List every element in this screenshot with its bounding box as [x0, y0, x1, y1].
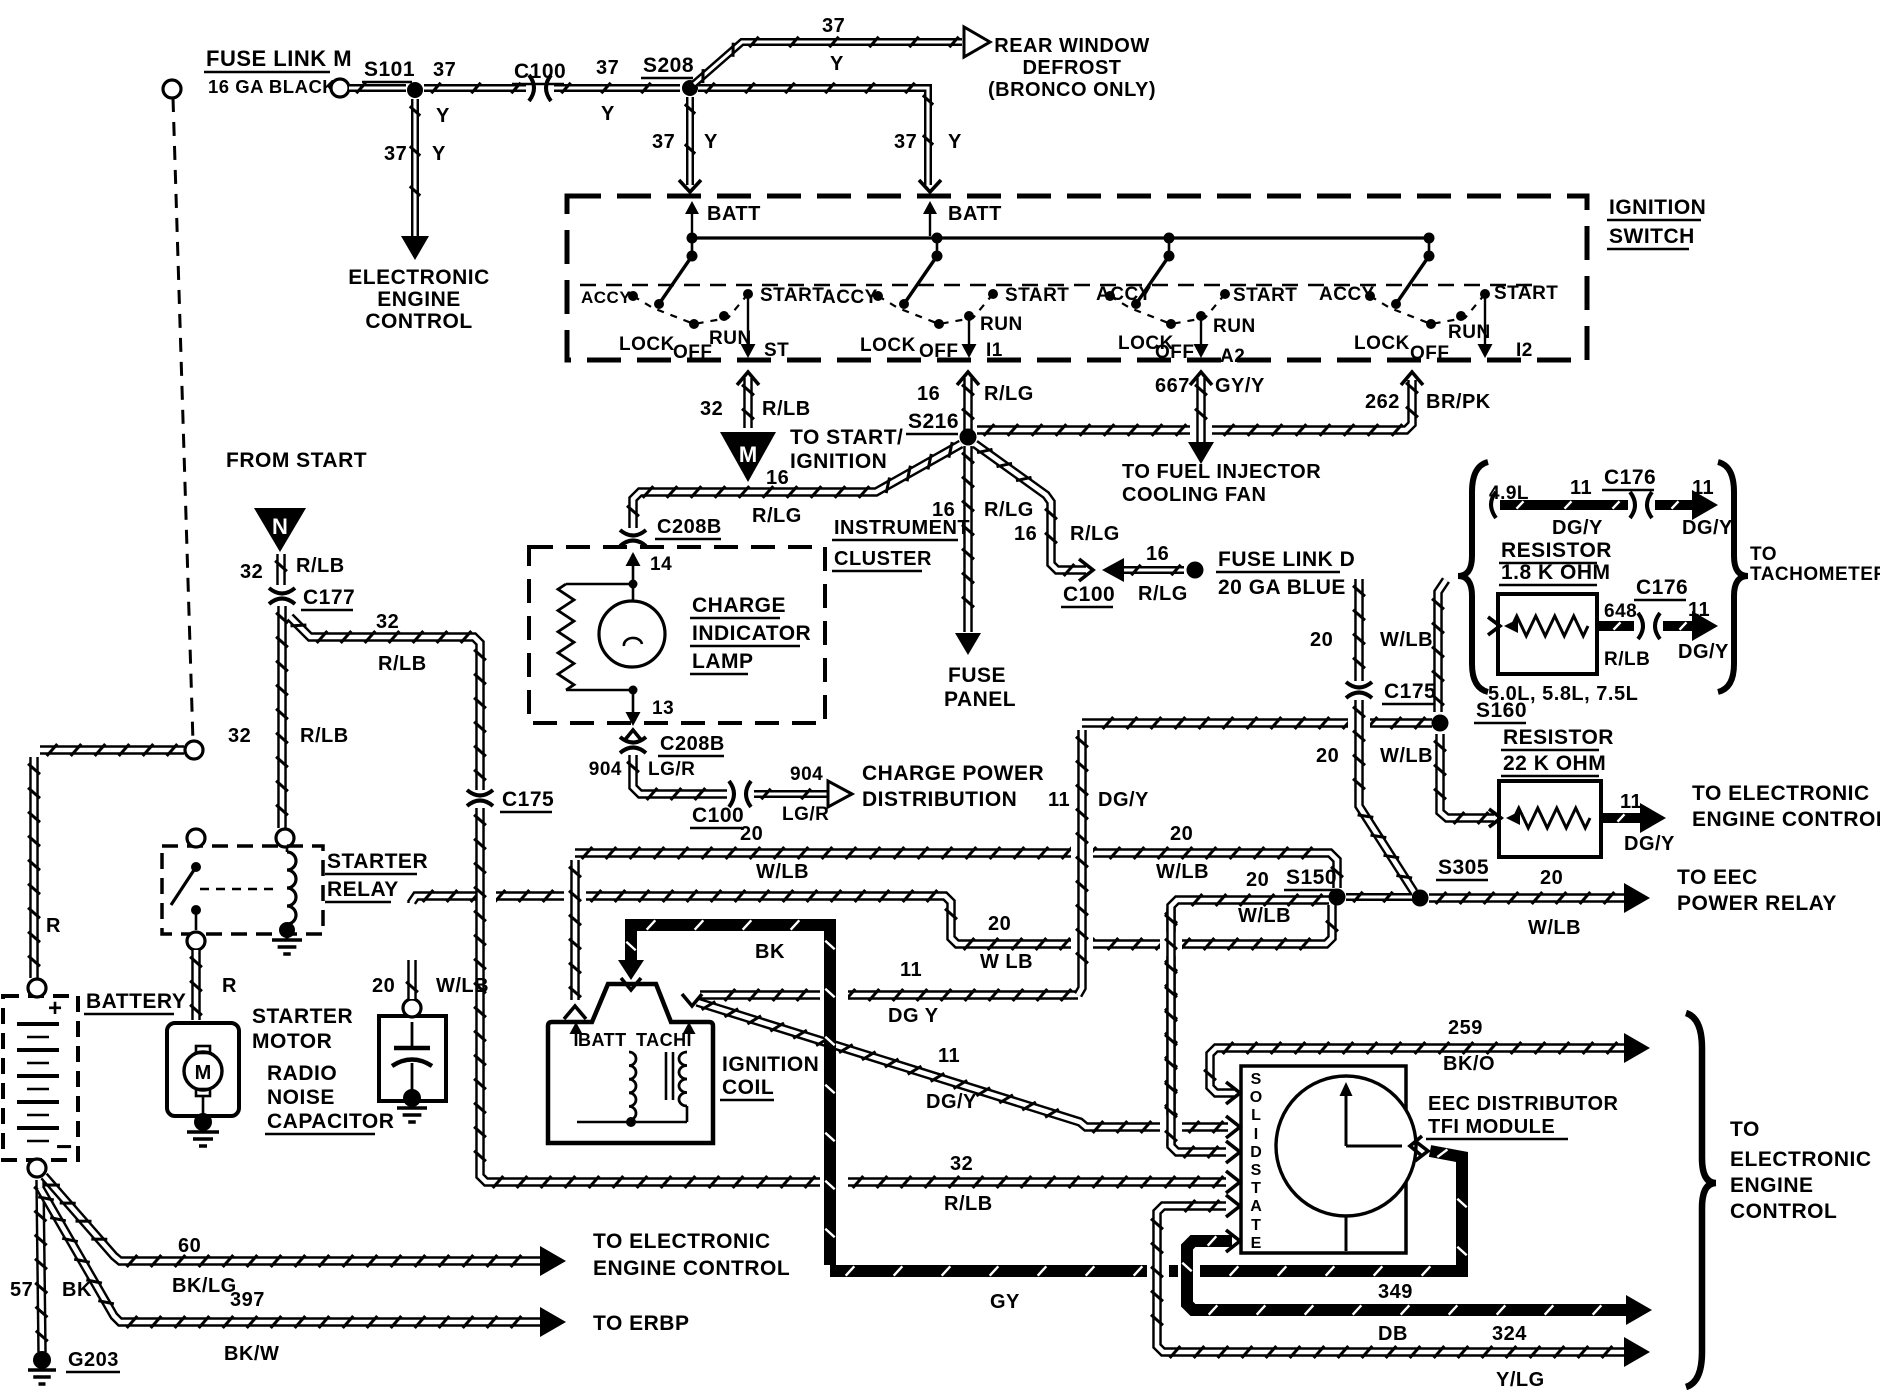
- wiper arm: [659, 256, 692, 304]
- svg-text:262: 262: [1365, 391, 1400, 413]
- svg-text:CONTROL: CONTROL: [365, 310, 472, 333]
- svg-text:R/LB: R/LB: [378, 653, 427, 675]
- wire BK: [631, 925, 830, 1265]
- contact START: [988, 289, 998, 299]
- splice S216: [960, 429, 977, 446]
- svg-text:BR/PK: BR/PK: [1426, 391, 1491, 413]
- svg-text:S150: S150: [1286, 866, 1337, 889]
- wiper detent arc: [1370, 294, 1485, 324]
- svg-text:37: 37: [822, 15, 845, 37]
- svg-text:37: 37: [652, 131, 675, 153]
- wire 32 R/LB to start ignition: [743, 378, 753, 428]
- wire 57 BK: [40, 1180, 42, 1352]
- svg-text:TACHOMETER: TACHOMETER: [1750, 564, 1880, 585]
- svg-text:20: 20: [372, 975, 395, 997]
- node coil common: [626, 1117, 636, 1127]
- contact OFF: [689, 319, 699, 329]
- splice S150: [1329, 889, 1346, 906]
- svg-text:C177: C177: [303, 586, 355, 609]
- contact LOCK: [1131, 299, 1141, 309]
- wire R battery to relay: [40, 745, 184, 755]
- wiper bus junction: [1424, 233, 1435, 244]
- arrowhead I1: [962, 344, 977, 358]
- wire 11 DG/Y S160 to 22k: [1440, 734, 1494, 818]
- svg-text:COOLING FAN: COOLING FAN: [1122, 484, 1266, 506]
- svg-text:DEFROST: DEFROST: [1022, 57, 1121, 79]
- svg-text:16 GA BLACK: 16 GA BLACK: [208, 76, 336, 97]
- svg-text:W/LB: W/LB: [1380, 629, 1433, 651]
- svg-text:M: M: [739, 442, 757, 467]
- svg-text:R/LG: R/LG: [1138, 583, 1188, 605]
- wire 397 BK/W: [40, 1188, 542, 1322]
- ignition coil box: [548, 984, 713, 1143]
- wiper detent arc: [878, 294, 993, 324]
- wire 16 R/LG S216 to instrument cluster: [633, 444, 961, 528]
- svg-text:GY/Y: GY/Y: [1215, 375, 1265, 397]
- svg-text:TO: TO: [1730, 1118, 1760, 1141]
- svg-text:MOTOR: MOTOR: [252, 1030, 332, 1053]
- svg-text:INDICATOR: INDICATOR: [692, 622, 811, 645]
- wire 37 Y C100 to S208: [554, 84, 680, 92]
- wire 904 LG/R: [633, 755, 727, 794]
- terminal A2 lead: [1200, 316, 1202, 346]
- terminal battery negative: [28, 1159, 46, 1177]
- pin 13 lead: [632, 690, 635, 712]
- wiper bus junction: [932, 233, 943, 244]
- battery cells: [17, 1022, 59, 1026]
- wire 32 R/LB C177 branch: [290, 617, 480, 790]
- ignition switch box: [567, 196, 1587, 360]
- terminal ring fuse link M left: [163, 80, 181, 98]
- svg-text:W/LB: W/LB: [1528, 917, 1581, 939]
- distributor rotor arrowhead: [1340, 1082, 1353, 1096]
- wiper bus junction: [687, 233, 698, 244]
- wire to tachometer resistors: [1438, 580, 1446, 712]
- contact START: [1480, 289, 1490, 299]
- svg-text:ELECTRONIC: ELECTRONIC: [348, 266, 490, 289]
- solid state TFI box: [1241, 1066, 1406, 1253]
- svg-text:32: 32: [700, 398, 723, 420]
- coil BATT terminal: [575, 1026, 578, 1046]
- terminal ST lead: [747, 294, 749, 346]
- fork TFI terminal 6: [1226, 1230, 1240, 1252]
- svg-text:11: 11: [1570, 477, 1592, 499]
- wiper arm: [1136, 256, 1169, 304]
- svg-text:STARTER: STARTER: [252, 1005, 353, 1028]
- relay contact upper: [191, 862, 201, 872]
- contact START: [1220, 289, 1230, 299]
- wire 11 DG/Y C176 to tach: [1655, 500, 1692, 510]
- svg-text:NOISE: NOISE: [267, 1086, 335, 1109]
- svg-text:32: 32: [376, 611, 399, 633]
- arrowhead fuel injector cooling fan: [1188, 442, 1214, 464]
- connector C100 top: [529, 75, 534, 101]
- EEC distributor rotor circle: [1276, 1076, 1416, 1216]
- wire 904 LG/R out: [754, 790, 830, 798]
- svg-text:C100: C100: [514, 60, 566, 83]
- svg-text:BATTERY: BATTERY: [86, 990, 186, 1013]
- starter relay dashed link: [200, 888, 275, 890]
- contact LOCK: [654, 299, 664, 309]
- svg-text:OFF: OFF: [919, 341, 959, 362]
- resistor 22 K OHM: [1514, 808, 1590, 828]
- svg-text:R/LG: R/LG: [752, 505, 802, 527]
- svg-text:20: 20: [988, 913, 1011, 935]
- terminal ring fuse link M: [331, 79, 349, 97]
- arrowhead BK into coil: [618, 960, 644, 980]
- wire R battery positive: [29, 757, 39, 978]
- svg-text:RUN: RUN: [709, 328, 752, 349]
- radio noise capacitor box: [379, 1016, 446, 1101]
- svg-text:C208B: C208B: [657, 516, 722, 538]
- contact RUN: [719, 311, 729, 321]
- wire GY: [830, 1151, 1462, 1271]
- svg-text:DG/Y: DG/Y: [1552, 517, 1603, 539]
- svg-text:20: 20: [1316, 745, 1339, 767]
- svg-text:37: 37: [894, 131, 917, 153]
- wiper pivot link: [1428, 238, 1431, 256]
- ground starter relay: [279, 922, 295, 938]
- svg-text:R/LB: R/LB: [296, 555, 345, 577]
- svg-text:T: T: [1251, 1180, 1261, 1197]
- distributor rotor contact: [1346, 1145, 1402, 1148]
- svg-text:TACH: TACH: [636, 1030, 687, 1050]
- svg-text:TO EEC: TO EEC: [1677, 866, 1758, 889]
- starter relay box: [162, 846, 323, 934]
- wire 37 Y S101 to C100: [424, 84, 526, 92]
- fork coil TACH input: [682, 994, 702, 1006]
- contact ACCY: [1105, 291, 1115, 301]
- svg-text:20: 20: [1246, 869, 1269, 891]
- wire 37 Y S208 down to BATT: [686, 97, 694, 185]
- ignition switch dashed row: [580, 284, 1540, 287]
- arrowhead I2: [1478, 344, 1493, 358]
- svg-text:Y/LG: Y/LG: [1496, 1369, 1545, 1391]
- wiper pivot link: [936, 238, 939, 256]
- svg-text:259: 259: [1448, 1017, 1483, 1039]
- connector C176 bottom: [1638, 613, 1643, 639]
- arrow N from start: [254, 508, 306, 552]
- svg-text:W/LB: W/LB: [756, 861, 809, 883]
- arrowhead 259 to electronic engine control: [1624, 1033, 1650, 1063]
- wire 11 DG/Y 22k out: [1601, 813, 1640, 823]
- terminal relay switch top: [187, 829, 205, 847]
- svg-text:TO ERBP: TO ERBP: [593, 1312, 689, 1335]
- svg-text:BK/O: BK/O: [1443, 1053, 1495, 1075]
- svg-text:BK: BK: [62, 1279, 92, 1301]
- wiper pivot: [687, 251, 698, 262]
- wire 60 BK/LG: [44, 1176, 542, 1261]
- contact LOCK: [899, 299, 909, 309]
- ignition coil secondary winding: [679, 1052, 687, 1106]
- svg-text:CAPACITOR: CAPACITOR: [267, 1110, 394, 1133]
- svg-text:START: START: [760, 285, 824, 306]
- fork ST: [737, 372, 759, 385]
- svg-text:ELECTRONIC: ELECTRONIC: [1730, 1148, 1872, 1171]
- svg-text:RELAY: RELAY: [327, 878, 399, 901]
- svg-text:TO START/: TO START/: [790, 426, 903, 449]
- svg-text:FUSE LINK D: FUSE LINK D: [1218, 548, 1355, 571]
- relay contact lower: [191, 905, 201, 915]
- connector half 4.9L: [1491, 492, 1496, 518]
- svg-text:TO FUEL INJECTOR: TO FUEL INJECTOR: [1122, 461, 1321, 483]
- lamp resistor bottom lead: [566, 689, 633, 692]
- svg-text:349: 349: [1378, 1281, 1413, 1303]
- wiper pivot link: [1168, 238, 1171, 256]
- contact ACCY: [628, 291, 638, 301]
- svg-text:CHARGE POWER: CHARGE POWER: [862, 762, 1044, 785]
- arrowhead A2: [1194, 344, 1209, 358]
- arrowhead resistor 1.8k input: [1504, 619, 1518, 633]
- svg-text:LOCK: LOCK: [860, 335, 916, 356]
- svg-text:R/LG: R/LG: [984, 499, 1034, 521]
- svg-text:S: S: [1251, 1071, 1262, 1088]
- capacitor symbol: [411, 1022, 414, 1048]
- wire 20 W/LB S150 branch: [1171, 900, 1329, 1146]
- contact OFF: [1426, 319, 1436, 329]
- resistor cluster shunt: [558, 584, 574, 690]
- svg-text:TO ELECTRONIC: TO ELECTRONIC: [593, 1230, 771, 1253]
- starter motor lead: [202, 1096, 205, 1114]
- svg-text:Y: Y: [436, 105, 450, 127]
- ignition coil bottom lead: [577, 1121, 687, 1124]
- wire 37 Y to electronic engine control: [411, 99, 419, 236]
- arrowhead electronic engine control: [401, 236, 429, 260]
- wire 648 R/LB: [1597, 621, 1634, 631]
- svg-text:D: D: [1250, 1144, 1262, 1161]
- svg-text:37: 37: [384, 143, 407, 165]
- svg-text:C176: C176: [1636, 576, 1688, 599]
- wire 11 DG/Y S160 to corner: [1082, 718, 1432, 728]
- svg-text:22 K OHM: 22 K OHM: [1503, 752, 1606, 775]
- brace to electronic engine control: [1686, 1013, 1716, 1387]
- fork distributor output: [1410, 1136, 1422, 1156]
- svg-text:11: 11: [1620, 791, 1642, 813]
- wire 20 W/LB fuse link D down: [1354, 579, 1364, 681]
- fork coil BK input: [621, 978, 641, 990]
- lamp resistor top lead: [566, 583, 633, 586]
- starter motor box: [167, 1023, 239, 1116]
- svg-text:13: 13: [652, 698, 674, 719]
- terminal ring battery feed: [185, 741, 203, 759]
- svg-text:W/LB: W/LB: [1238, 905, 1291, 927]
- svg-text:32: 32: [240, 561, 263, 583]
- svg-text:ACCY: ACCY: [1096, 284, 1152, 305]
- terminal I1 lead: [968, 316, 970, 346]
- node lamp bottom: [629, 686, 638, 695]
- svg-text:324: 324: [1492, 1323, 1527, 1345]
- connector C177: [269, 588, 295, 594]
- svg-text:ST: ST: [764, 340, 789, 361]
- svg-text:DB: DB: [1378, 1323, 1408, 1345]
- svg-text:DG/Y: DG/Y: [1098, 789, 1149, 811]
- svg-text:BATT: BATT: [948, 203, 1002, 225]
- relay switch arm: [171, 867, 196, 905]
- svg-text:11: 11: [900, 959, 922, 981]
- svg-text:T: T: [1251, 1217, 1261, 1234]
- svg-text:LOCK: LOCK: [1354, 333, 1410, 354]
- svg-text:397: 397: [230, 1289, 265, 1311]
- svg-text:14: 14: [650, 554, 672, 575]
- fork TFI terminal 2: [1226, 1116, 1240, 1138]
- svg-text:ACCY: ACCY: [1319, 284, 1375, 305]
- wire 37 Y S208 to BATT right: [698, 88, 928, 185]
- svg-text:A: A: [1250, 1198, 1262, 1215]
- svg-text:CLUSTER: CLUSTER: [834, 548, 932, 570]
- svg-text:11: 11: [1048, 789, 1070, 811]
- wire 32 R/LB from start: [276, 554, 286, 585]
- wire 16 R/LG S216 to C100: [975, 444, 1086, 570]
- svg-text:A2: A2: [1220, 346, 1245, 367]
- ground radio noise capacitor: [403, 1089, 421, 1107]
- svg-text:START: START: [1494, 283, 1558, 304]
- svg-text:BATT: BATT: [707, 203, 761, 225]
- svg-text:C176: C176: [1604, 466, 1656, 489]
- contact ACCY: [873, 291, 883, 301]
- contact OFF: [1166, 319, 1176, 329]
- svg-text:IGNITION: IGNITION: [790, 450, 887, 473]
- svg-text:32: 32: [228, 725, 251, 747]
- brace tachometer branches: [1458, 462, 1488, 692]
- fork I1: [957, 372, 979, 385]
- contact RUN: [964, 311, 974, 321]
- terminal starter relay S: [276, 829, 294, 847]
- contact OFF: [934, 319, 944, 329]
- svg-text:R/LB: R/LB: [944, 1193, 993, 1215]
- svg-text:ENGINE CONTROL: ENGINE CONTROL: [593, 1257, 790, 1280]
- fork TFI terminal 1: [1226, 1082, 1240, 1104]
- connector C175 right: [1346, 682, 1372, 688]
- svg-text:DG/Y: DG/Y: [1678, 641, 1729, 663]
- coil BATT arrowhead: [570, 1022, 583, 1034]
- svg-text:FUSE: FUSE: [948, 664, 1006, 687]
- arrowhead ST: [741, 344, 756, 358]
- arrowhead to EEC power relay: [1624, 883, 1650, 913]
- svg-text:IGNITION: IGNITION: [1609, 196, 1706, 219]
- distributor rotor shaft: [1345, 1090, 1348, 1146]
- resistor 1.8 K OHM: [1512, 616, 1588, 636]
- svg-text:OFF: OFF: [1155, 342, 1195, 363]
- wire 32 R/LB C177 to starter relay: [277, 606, 287, 828]
- svg-text:20 GA BLUE: 20 GA BLUE: [1218, 576, 1346, 599]
- wiper pivot: [1424, 251, 1435, 262]
- starter relay coil: [287, 852, 296, 924]
- svg-text:M: M: [195, 1062, 212, 1084]
- wire 16 R/LG S216 to fuse panel: [963, 446, 973, 632]
- svg-text:N: N: [272, 514, 288, 539]
- svg-text:RESISTOR: RESISTOR: [1501, 539, 1612, 562]
- splice S101: [407, 82, 423, 98]
- fork TFI terminal 4: [1226, 1171, 1240, 1193]
- svg-text:R: R: [46, 915, 61, 937]
- resistor 22 K OHM box: [1499, 781, 1601, 857]
- pin 14 arrow: [626, 552, 641, 566]
- wire 37 Y to rear window defrost: [694, 42, 962, 84]
- svg-text:POWER RELAY: POWER RELAY: [1677, 892, 1837, 915]
- svg-text:LAMP: LAMP: [692, 650, 754, 673]
- wire 32 R/LB to TFI: [480, 1164, 1226, 1182]
- arrowhead 11 DG/Y to EEC: [1640, 803, 1666, 833]
- ground starter motor: [194, 1113, 212, 1131]
- splice S305: [1412, 890, 1429, 907]
- svg-text:20: 20: [1540, 867, 1563, 889]
- svg-text:R/LB: R/LB: [1604, 649, 1650, 670]
- svg-text:37: 37: [433, 59, 456, 81]
- wiper detent arc: [1110, 294, 1225, 324]
- arrowhead 11 DG/Y tach: [1692, 490, 1718, 520]
- connector C208B lower: [620, 737, 646, 743]
- svg-text:S: S: [1251, 1162, 1262, 1179]
- wire 16 R/LG S216 bus: [977, 380, 1412, 430]
- ignition coil core: [665, 1052, 668, 1100]
- svg-text:IGNITION: IGNITION: [722, 1053, 819, 1076]
- svg-text:RADIO: RADIO: [267, 1062, 337, 1085]
- svg-text:TO ELECTRONIC: TO ELECTRONIC: [1692, 782, 1870, 805]
- wiper pivot: [932, 251, 943, 262]
- relay coil top lead: [286, 846, 289, 852]
- terminal battery positive: [28, 979, 46, 997]
- contact RUN: [1456, 311, 1466, 321]
- svg-text:W/LB: W/LB: [1156, 861, 1209, 883]
- svg-text:LG/R: LG/R: [648, 759, 695, 780]
- coil primary bottom lead: [629, 1120, 631, 1122]
- svg-text:CONTROL: CONTROL: [1730, 1200, 1837, 1223]
- svg-text:BK/LG: BK/LG: [172, 1275, 237, 1297]
- arrowhead charge power distribution: [828, 781, 852, 807]
- svg-text:648: 648: [1604, 601, 1637, 622]
- svg-text:REAR WINDOW: REAR WINDOW: [994, 35, 1149, 57]
- wire 11 DG/Y to tach 2: [1663, 621, 1692, 631]
- svg-text:16: 16: [766, 467, 789, 489]
- wire 20 W/LB bus A: [575, 853, 1337, 888]
- svg-text:LG/R: LG/R: [782, 804, 829, 825]
- wiper pivot link: [691, 238, 694, 256]
- svg-text:STARTER: STARTER: [327, 850, 428, 873]
- svg-text:S208: S208: [643, 54, 694, 77]
- contact ACCY: [1365, 291, 1375, 301]
- charge indicator lamp: [599, 601, 665, 667]
- pin 14 lead: [632, 554, 635, 600]
- wire R relay to starter motor: [191, 950, 201, 1020]
- svg-text:S305: S305: [1438, 856, 1489, 879]
- svg-text:Y: Y: [830, 53, 844, 75]
- terminal capacitor: [403, 999, 421, 1017]
- contact RUN: [1196, 311, 1206, 321]
- svg-text:ENGINE: ENGINE: [377, 288, 461, 311]
- fork BATT 2: [919, 180, 941, 192]
- svg-text:START: START: [1005, 285, 1069, 306]
- wire 11 DG/Y vertical: [1078, 730, 1082, 995]
- svg-text:(BRONCO ONLY): (BRONCO ONLY): [988, 79, 1156, 101]
- svg-text:R/LG: R/LG: [984, 383, 1034, 405]
- wire 259 BK/O: [1210, 1048, 1628, 1093]
- svg-text:Y: Y: [704, 131, 718, 153]
- pin 13 arrow: [626, 712, 641, 726]
- svg-text:L: L: [1251, 1107, 1261, 1124]
- arrowhead fuse panel: [955, 633, 981, 655]
- svg-text:R/LB: R/LB: [762, 398, 811, 420]
- arrowhead 349 to electronic engine control: [1626, 1295, 1652, 1325]
- svg-text:Y: Y: [432, 143, 446, 165]
- node: dashed reference line from fuse link M terminal down to battery junction: [173, 98, 193, 742]
- fork coil BATT: [564, 1006, 586, 1019]
- wiper bus junction: [1164, 233, 1175, 244]
- svg-text:W/LB: W/LB: [1380, 745, 1433, 767]
- wire 20 W/LB to ignition coil: [570, 860, 580, 1000]
- svg-text:11: 11: [1692, 477, 1714, 499]
- arrowhead to rear window defrost: [964, 27, 990, 57]
- fork pin 13: [624, 730, 642, 741]
